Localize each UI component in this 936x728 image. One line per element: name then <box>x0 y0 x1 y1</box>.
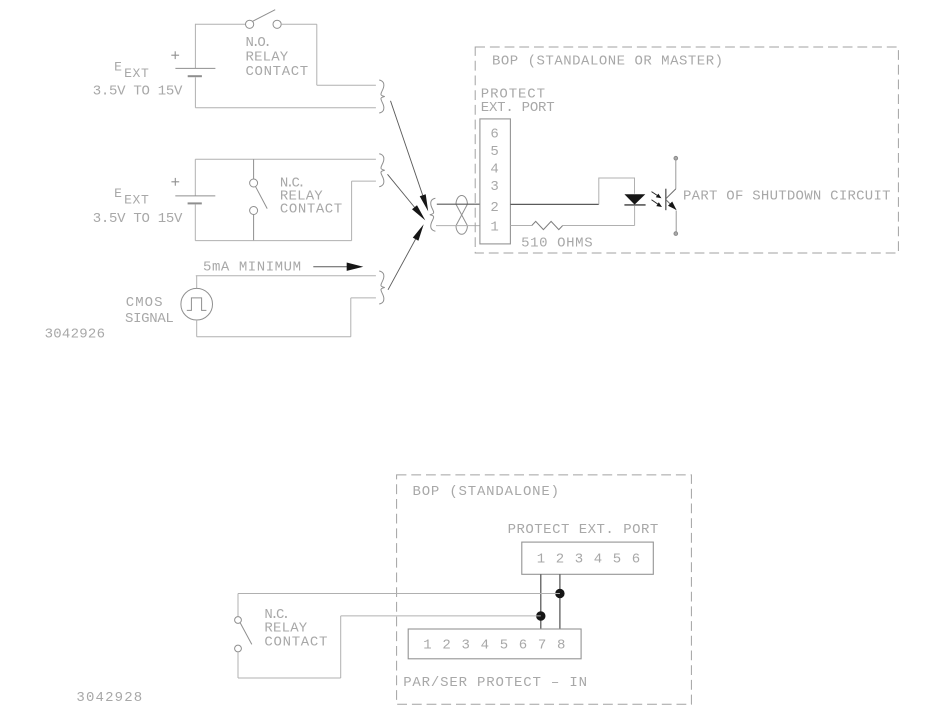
svg-text:1: 1 <box>490 219 498 235</box>
svg-text:2: 2 <box>490 200 498 216</box>
svg-text:5: 5 <box>490 144 498 160</box>
svg-text:EXT: EXT <box>124 193 149 208</box>
svg-text:8: 8 <box>557 638 565 654</box>
svg-text:5: 5 <box>500 638 508 654</box>
svg-text:3: 3 <box>490 179 498 195</box>
svg-text:3.5V TO 15V: 3.5V TO 15V <box>93 84 183 100</box>
svg-text:1: 1 <box>537 551 545 567</box>
svg-text:4: 4 <box>594 551 602 567</box>
svg-text:2: 2 <box>556 551 564 567</box>
svg-text:4: 4 <box>481 638 489 654</box>
svg-text:5mA MINIMUM: 5mA MINIMUM <box>203 260 301 276</box>
svg-text:6: 6 <box>490 127 498 143</box>
svg-text:PAR/SER PROTECT – IN: PAR/SER PROTECT – IN <box>403 675 587 691</box>
svg-text:SIGNAL: SIGNAL <box>125 311 174 327</box>
svg-text:BOP (STANDALONE OR MASTER): BOP (STANDALONE OR MASTER) <box>492 54 723 70</box>
svg-text:CONTACT: CONTACT <box>246 64 309 80</box>
svg-text:4: 4 <box>490 162 498 178</box>
svg-text:E: E <box>114 186 122 201</box>
svg-text:CONTACT: CONTACT <box>280 202 342 218</box>
svg-text:CONTACT: CONTACT <box>264 635 327 651</box>
svg-text:CMOS: CMOS <box>126 295 163 311</box>
svg-text:3042928: 3042928 <box>76 690 142 706</box>
svg-text:510 OHMS: 510 OHMS <box>521 236 593 252</box>
svg-text:PART OF SHUTDOWN CIRCUIT: PART OF SHUTDOWN CIRCUIT <box>683 189 891 205</box>
svg-text:6: 6 <box>632 551 640 567</box>
svg-text:EXT. PORT: EXT. PORT <box>481 100 555 116</box>
svg-text:EXT: EXT <box>124 66 149 81</box>
svg-text:3042926: 3042926 <box>45 326 105 342</box>
svg-text:1: 1 <box>423 638 431 654</box>
svg-text:BOP (STANDALONE): BOP (STANDALONE) <box>413 484 560 500</box>
svg-text:3: 3 <box>575 551 583 567</box>
svg-text:6: 6 <box>519 638 527 654</box>
svg-text:PROTECT EXT. PORT: PROTECT EXT. PORT <box>508 522 659 538</box>
svg-text:3: 3 <box>461 638 469 654</box>
svg-text:2: 2 <box>442 638 450 654</box>
svg-text:5: 5 <box>613 551 621 567</box>
svg-text:7: 7 <box>538 638 546 654</box>
svg-text:RELAY: RELAY <box>246 50 289 66</box>
svg-text:E: E <box>114 60 122 75</box>
svg-text:3.5V TO 15V: 3.5V TO 15V <box>93 211 183 227</box>
